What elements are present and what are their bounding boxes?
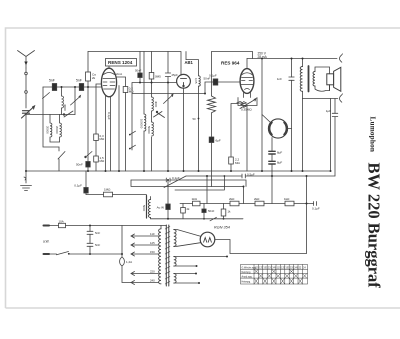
svg-text:BW 220 Burggraf: BW 220 Burggraf [365, 163, 384, 289]
svg-text:MΩ: MΩ [100, 137, 105, 141]
svg-text:5nF: 5nF [95, 243, 100, 247]
capacitor 50nF hanger x204 [202, 204, 215, 219]
wire grid top cap to 500pF (2M label) [116, 72, 134, 171]
svg-text:AB1: AB1 [185, 60, 194, 65]
label RES 964 [221, 61, 240, 66]
svg-text:4000: 4000 [154, 101, 158, 108]
wire grid bus y87 [43, 86, 102, 88]
power transformer 4V winding [174, 257, 176, 267]
svg-text:10A: 10A [59, 220, 64, 224]
power transformer rectifier filament winding [174, 274, 176, 284]
svg-text:25pF: 25pF [172, 73, 179, 77]
mains terminal top [44, 225, 50, 227]
svg-text:0,5μF: 0,5μF [247, 172, 255, 176]
resistor 50000 (chain) [254, 197, 264, 206]
power transformer core [165, 225, 170, 286]
tube V2 AB1 duodiode [177, 74, 191, 88]
output transformer primary [300, 59, 302, 99]
svg-text:50nF: 50nF [76, 163, 83, 167]
wire x144 from rail A [143, 52, 145, 172]
svg-text:0,05: 0,05 [194, 78, 198, 84]
primary tap 125V [131, 241, 159, 247]
mains capacitor 5nF upper [87, 225, 100, 256]
svg-text:5nF: 5nF [76, 79, 82, 83]
svg-text:2k: 2k [187, 207, 191, 211]
output transformer secondary [313, 67, 330, 91]
svg-text:125: 125 [150, 241, 155, 245]
wire 250V 28mA anode supply [247, 52, 337, 60]
B+ wire from rectifier [215, 175, 308, 254]
coil L1 4000 [62, 87, 68, 115]
wire x88 top vertical [87, 52, 89, 172]
voltage selector wire x122 with fuse 1.2A [120, 226, 133, 283]
wire x134 with resistor box [129, 83, 205, 151]
coupling capacitor 50nF blob on y85.5 [204, 74, 218, 86]
wire x151.5 from rail A [149, 52, 161, 172]
table cell digits and row labels [242, 266, 307, 283]
B+ distribution line y203.5 [180, 203, 314, 205]
svg-text:1kΩ: 1kΩ [192, 197, 198, 201]
electrolytic blob AuW on x168 [157, 179, 171, 220]
switch contact (mid left) [85, 152, 92, 158]
speaker terminal arrow top [340, 54, 343, 62]
wire x330.5 to bus [330, 99, 332, 172]
svg-text:20000: 20000 [46, 126, 50, 134]
heater lead 4V return [174, 265, 198, 267]
field coil (speaker excitation) [262, 115, 292, 139]
wire coil bottom y218.8 [151, 217, 244, 221]
top bracket rail B [212, 52, 253, 97]
wire node y113 horizontal [26, 114, 75, 116]
resistor 0.5M [94, 156, 105, 163]
resistor 2k (chain) [284, 197, 294, 206]
svg-text:2k: 2k [92, 76, 96, 80]
svg-text:MΩ: MΩ [235, 161, 240, 165]
svg-text:RES 964: RES 964 [221, 61, 240, 66]
svg-text:0,1μF: 0,1μF [209, 74, 217, 78]
wire antenna to ground bus [25, 115, 27, 172]
svg-text:Lumophon: Lumophon [369, 117, 377, 153]
svg-text:1MΩ: 1MΩ [104, 188, 111, 192]
antenna trimmer capacitor [22, 106, 35, 118]
resistor 0.1M (chain) [229, 197, 239, 206]
capacitor 0.1uF end of chain [312, 202, 320, 211]
wire x272.5 to chain [271, 171, 273, 204]
antenna lead-in wire with connector marks [25, 68, 28, 108]
svg-text:20000: 20000 [55, 126, 59, 134]
grid bias network 0.35M [237, 98, 258, 112]
switch S1 [58, 147, 65, 171]
bandswitch S2 contacts [154, 111, 165, 117]
resistor 0.3M [94, 134, 105, 141]
svg-text:1,2A: 1,2A [126, 260, 132, 264]
diagonal link to AF coil [164, 176, 186, 188]
svg-text:5nF: 5nF [95, 231, 100, 235]
svg-text:50: 50 [193, 117, 197, 121]
wire x262 field coil return [261, 58, 263, 172]
svg-text:110: 110 [150, 232, 155, 236]
power transformer primary winding [159, 226, 161, 284]
antenna [18, 51, 35, 69]
tube V3 RES 964 envelope [240, 59, 254, 94]
svg-text:1kΩ: 1kΩ [284, 197, 290, 201]
AF choke coil 5000 [142, 196, 151, 219]
svg-text:150: 150 [150, 250, 155, 254]
speaker terminal arrow bottom [340, 94, 343, 102]
bus junction dots [25, 58, 332, 173]
trimmer arrow on x166 [164, 94, 174, 104]
wire x119 screen lead [107, 86, 119, 172]
resistor 1k (chain left) [192, 197, 201, 206]
svg-text:G.Wechs.spg: G.Wechs.spg [242, 266, 257, 269]
resistor 2.2M on x231 [229, 104, 241, 172]
wire x207 screen feed [206, 175, 208, 204]
wire anode bus y85.5 [205, 82, 240, 94]
svg-text:0,1μF: 0,1μF [312, 207, 320, 211]
wire x166 from rail A with padder cap [165, 52, 178, 172]
svg-text:0,1μF: 0,1μF [107, 112, 111, 120]
svg-text:1k: 1k [228, 210, 232, 214]
svg-text:2mA: 2mA [116, 72, 122, 76]
tube V1 RENS 1204 envelope [101, 66, 116, 97]
capacitor 5nF (second coupling) [76, 79, 84, 91]
svg-text:220: 220 [150, 269, 155, 273]
capacitor 50nF blob on x140 [135, 52, 142, 84]
pickup line y194.5 with 1M resistor [86, 188, 147, 197]
coil 4000 on x151.5 [152, 97, 159, 111]
svg-text:Heizspg.: Heizspg. [242, 280, 252, 283]
rectifier tube RGN 354 [200, 226, 230, 247]
mains fuse 10A [48, 220, 167, 228]
ground [21, 171, 32, 191]
capacitor 5nF (antenna coupling) [49, 79, 57, 91]
svg-text:8μF: 8μF [277, 151, 282, 155]
coil L2 20000 [46, 115, 60, 143]
tube V3 cathode leads [244, 93, 251, 98]
tube V1 cathode leads [106, 96, 111, 171]
wavechange switch contact left [63, 111, 73, 117]
tube V1 label box RENS 1204 [106, 59, 137, 67]
coil 100000 on x144 [140, 114, 146, 131]
svg-text:50nF: 50nF [208, 209, 215, 213]
svg-text:Au W: Au W [157, 206, 165, 210]
wire x86 with 0.1uF blob to pickup line [74, 171, 88, 195]
svg-text:MΩ: MΩ [100, 159, 105, 163]
svg-text:5nF: 5nF [49, 79, 55, 83]
svg-text:2kΩ: 2kΩ [229, 197, 235, 201]
primary tap 240V [131, 278, 159, 284]
HV leads to rectifier [174, 230, 201, 247]
svg-text:1nF: 1nF [277, 77, 282, 81]
resistor hanger x223.5 [221, 204, 231, 219]
tube V2 leads [183, 88, 185, 171]
wire speaker bottom y98.5 [303, 98, 338, 100]
svg-text:MΩ: MΩ [129, 90, 134, 94]
grid network stem to bus [246, 106, 248, 172]
primary tap 150V [131, 250, 159, 256]
svg-text:0,1μF: 0,1μF [74, 184, 82, 188]
primary tap 110V [131, 232, 159, 238]
power transformer HV secondary [174, 230, 176, 247]
resistor Ca 2k (box on x88) [86, 72, 97, 81]
capacitor 50nF (AVC) on x88 [76, 162, 90, 168]
mains terminal bottom and switch [43, 240, 122, 255]
svg-text:2kΩ: 2kΩ [254, 197, 260, 201]
rectifier filament leads [174, 273, 197, 275]
primary tap 220V [131, 269, 159, 275]
svg-text:5000: 5000 [142, 205, 146, 212]
svg-text:1μF: 1μF [326, 109, 331, 113]
svg-text:50nF: 50nF [135, 69, 142, 73]
tuning capacitor CV1 [71, 87, 81, 115]
svg-text:RENS 1204: RENS 1204 [108, 60, 133, 65]
svg-text:6μF: 6μF [216, 139, 221, 143]
wire x96 (grid leak chain) [96, 84, 102, 171]
svg-text:Anod.spg.: Anod.spg. [242, 275, 253, 278]
resistor (zigzag) anode load on x211.5 [208, 96, 216, 187]
coil L3 20000 [55, 115, 61, 143]
capacitor 6uF blob on x211.5 [209, 137, 221, 143]
svg-text:a.W.: a.W. [43, 240, 49, 244]
loudspeaker [327, 67, 341, 91]
tube selection table [241, 265, 308, 285]
svg-text:0M5: 0M5 [155, 75, 161, 79]
heater lead 4V to tubes [174, 256, 228, 258]
svg-text:100000: 100000 [140, 119, 144, 129]
svg-text:50000: 50000 [147, 126, 151, 134]
svg-text:Netzspg.: Netzspg. [242, 271, 252, 274]
bus y186 [131, 180, 245, 204]
wire x302.5 to bus [302, 99, 304, 172]
svg-text:22: 22 [299, 266, 302, 269]
top rail A [88, 52, 181, 76]
svg-text:24: 24 [303, 266, 306, 269]
svg-text:4000: 4000 [63, 104, 67, 111]
electrolytic 8uF + 8uF [269, 138, 283, 172]
capacitor 1uF on x335 [326, 99, 338, 177]
tube V2 label box AB1 [185, 60, 194, 65]
wire left rail x43 [43, 87, 60, 147]
resistor hanger x183 [181, 204, 190, 219]
resistor 50000 (loop style) on x200.5 [186, 52, 200, 172]
main earth bus y171 [26, 170, 331, 172]
svg-text:8μF: 8μF [277, 161, 282, 165]
decoupling bus y180 with 0.1uF [131, 176, 246, 187]
bus y190 nested return [175, 175, 225, 190]
output transformer core [308, 66, 310, 92]
decoupling bus y176 with 0.5uF [186, 172, 335, 178]
capacitor 1nF on x291.5 [277, 59, 294, 172]
svg-text:240: 240 [150, 278, 155, 282]
svg-text:RGN 354: RGN 354 [214, 226, 230, 230]
coil 50000 on x151.5 [147, 122, 153, 136]
